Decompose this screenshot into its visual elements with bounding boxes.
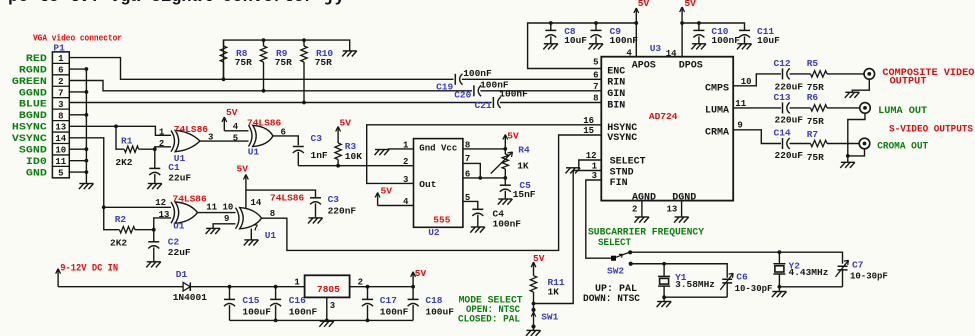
label C8	[564, 26, 576, 37]
label 74LS86 (U1B)	[247, 117, 282, 128]
label R10	[316, 48, 333, 59]
resistor R7 75R	[811, 140, 860, 146]
ground (C11)	[737, 44, 752, 50]
label U1 (gate B)	[248, 146, 260, 157]
wire SW2 upper throw to Y2/C7	[630, 250, 842, 263]
label C3 (220nF)	[328, 194, 340, 205]
svg-text:75R: 75R	[807, 116, 824, 127]
pin label 13 (AD724 DGND)	[667, 205, 678, 215]
label C6	[736, 271, 748, 282]
svg-text:7: 7	[58, 88, 63, 98]
wire SELECT pin12 to ground	[579, 160, 602, 168]
connector P1 (VGA) with pin boxes	[52, 52, 69, 179]
wire GREEN net (C20 to GIN)	[480, 90, 601, 92]
label C20 value 100nF	[480, 79, 509, 90]
pin name VSYNC (AD724)	[607, 133, 637, 144]
label VGA video connector	[33, 33, 122, 43]
wire C3 to 555 pin2	[298, 164, 413, 168]
pin name LUMA (AD724)	[705, 106, 729, 117]
ground (C8)	[543, 44, 558, 50]
label SW2	[607, 265, 624, 276]
svg-text:4: 4	[626, 48, 632, 58]
svg-text:U1: U1	[248, 146, 260, 157]
connector composite video jack	[864, 69, 875, 80]
pin label 2 (7805)	[358, 277, 363, 287]
svg-text:4.43MHz: 4.43MHz	[789, 267, 829, 278]
capacitor C1	[149, 149, 160, 183]
switch SW2	[611, 250, 633, 266]
5V arrow (DPOS)	[680, 0, 696, 23]
pin label 9 (AD724 CRMA)	[737, 121, 742, 131]
wire LUMA to C13	[733, 107, 781, 109]
svg-text:9-12V DC IN: 9-12V DC IN	[60, 264, 118, 275]
wire gate4 pin9 to ground	[213, 224, 235, 229]
label UP: PAL	[595, 284, 637, 295]
label MODE SELECT	[459, 295, 523, 306]
svg-text:75R: 75R	[315, 57, 332, 68]
svg-text:2: 2	[632, 205, 637, 215]
svg-text:3: 3	[330, 301, 335, 311]
crystal Y2 4.43MHz	[773, 252, 785, 287]
label D1	[176, 269, 188, 280]
svg-text:7: 7	[253, 224, 258, 234]
pin label 8 (555)	[465, 140, 470, 150]
svg-text:5: 5	[58, 169, 63, 179]
svg-text:SELECT: SELECT	[598, 238, 631, 249]
ground (75R rail)	[342, 51, 357, 57]
wire 5V rail to C3b and pin14	[246, 190, 316, 208]
pin label 1 (555)	[403, 140, 409, 150]
svg-text:Gnd Vcc: Gnd Vcc	[419, 143, 457, 154]
pin label 14 (AD724 DPOS)	[666, 49, 677, 59]
svg-text:1: 1	[159, 127, 165, 137]
label R8	[236, 48, 248, 59]
svg-text:R3: R3	[345, 141, 357, 152]
svg-text:100nF: 100nF	[610, 35, 639, 46]
label Gnd Vcc (555)	[419, 143, 457, 154]
wire 555 pin5 to C4	[463, 201, 478, 209]
svg-text:74LS86: 74LS86	[173, 194, 208, 205]
svg-text:12: 12	[155, 198, 166, 208]
label R3	[345, 141, 357, 152]
resistor R11 1K	[530, 276, 536, 304]
svg-text:ENC: ENC	[607, 67, 625, 78]
svg-text:C16: C16	[289, 295, 306, 306]
label CLOSED: PAL	[458, 314, 520, 325]
svg-text:C13: C13	[774, 92, 791, 103]
svg-text:U1: U1	[265, 230, 277, 241]
pin label 6 (555)	[465, 169, 470, 179]
svg-text:100uF: 100uF	[242, 306, 271, 317]
pin name STND (AD724)	[610, 167, 634, 178]
capacitor C2	[148, 230, 159, 262]
pin label 2 (AD724 AGND)	[632, 205, 637, 215]
label R6 value 75R	[807, 116, 824, 127]
wire HSYNC net	[69, 124, 171, 135]
label 74LS86 (U1C)	[173, 194, 208, 205]
svg-text:13: 13	[159, 210, 170, 220]
pin label 7 (U1D)	[253, 224, 258, 234]
svg-text:GGND: GGND	[19, 87, 47, 99]
svg-text:CLOSED: PAL: CLOSED: PAL	[458, 314, 520, 325]
wire 555 pin4 to 5V	[378, 205, 414, 207]
diode D1 1N4001	[183, 282, 190, 291]
label Out (555)	[419, 179, 436, 190]
capacitor C8	[545, 23, 556, 44]
svg-text:6: 6	[593, 70, 598, 80]
capacitor C9	[591, 23, 602, 44]
svg-text:S-VIDEO OUTPUTS: S-VIDEO OUTPUTS	[889, 124, 973, 135]
label C5 value 15nF	[513, 189, 536, 200]
pin label 3 (555)	[403, 175, 408, 185]
svg-text:1nF: 1nF	[311, 150, 328, 161]
potentiometer R4 1K	[491, 149, 513, 178]
svg-text:C12: C12	[774, 58, 791, 69]
title text (cut off at top edge)	[8, 0, 345, 7]
pin label 2 (555)	[403, 157, 408, 167]
svg-text:10-30pF: 10-30pF	[850, 272, 888, 282]
label R11	[548, 277, 565, 288]
label C13 value 220uF	[775, 114, 804, 125]
svg-text:5V: 5V	[226, 107, 238, 118]
5V arrow (R3)	[336, 118, 352, 132]
label C2	[168, 236, 180, 247]
label C21 value 100nF	[499, 89, 528, 100]
xor gate U1C 74LS86	[171, 202, 198, 223]
wire GREEN net (pin2 to C20)	[69, 81, 472, 93]
svg-text:100nF: 100nF	[711, 35, 740, 46]
label LUMA OUT	[878, 106, 927, 117]
svg-text:100uF: 100uF	[425, 306, 454, 317]
svg-text:10K: 10K	[345, 151, 362, 162]
connector P1 name	[53, 42, 70, 53]
svg-text:100nF: 100nF	[289, 306, 318, 317]
pin label 5 (555)	[465, 193, 470, 203]
capacitor C16	[270, 287, 281, 321]
wire AGND pin2 to ground	[641, 201, 643, 217]
svg-text:RED: RED	[26, 53, 47, 65]
svg-text:APOS: APOS	[632, 61, 656, 72]
svg-text:VSYNC: VSYNC	[607, 133, 637, 144]
label R9 value 75R	[275, 57, 292, 68]
wire C14 to R7	[790, 143, 811, 145]
capacitor C3 1nF	[293, 147, 304, 166]
svg-text:BIN: BIN	[607, 101, 625, 112]
svg-text:5V: 5V	[415, 268, 427, 279]
svg-text:3.58MHz: 3.58MHz	[675, 279, 715, 290]
pin label 4 (U1B)	[233, 122, 239, 132]
pin label 1 (7805)	[294, 277, 300, 287]
svg-text:C15: C15	[242, 295, 259, 306]
connector luma out jack	[860, 103, 871, 114]
svg-text:OUTPUT: OUTPUT	[890, 77, 927, 88]
capacitor C12 220uF	[783, 68, 790, 79]
label C18	[425, 295, 442, 306]
svg-text:GIN: GIN	[607, 89, 625, 100]
wire RED net (pin1 to C19)	[69, 58, 453, 82]
label R10 value 75R	[315, 57, 332, 68]
pin name APOS (AD724)	[632, 61, 656, 72]
capacitor C17	[362, 287, 373, 321]
wire composite jack shield	[852, 79, 869, 92]
pin label 1 (U1A)	[159, 127, 165, 137]
pin name HSYNC (AD724)	[607, 123, 637, 134]
svg-text:SGND: SGND	[19, 145, 47, 157]
ground (C4)	[470, 227, 485, 233]
wire gate3 out to gate4 pin10	[198, 212, 236, 214]
pin label 13 (U1C)	[159, 210, 170, 220]
ground (555 pin1)	[375, 150, 390, 156]
label R3 value 10K	[345, 151, 362, 162]
svg-text:Out: Out	[419, 179, 436, 190]
label C17	[380, 295, 397, 306]
label Y2	[789, 260, 801, 271]
svg-text:GREEN: GREEN	[12, 76, 47, 88]
resistor R3	[335, 131, 341, 166]
ground (C5)	[498, 199, 513, 205]
svg-text:BLUE: BLUE	[19, 99, 47, 111]
svg-text:14: 14	[55, 134, 66, 144]
label COMPOSITE VIDEO	[882, 68, 974, 79]
label C8 value 10uF	[564, 35, 587, 46]
svg-text:5V: 5V	[638, 0, 650, 9]
wire 7805 pin3 to ground rail	[326, 297, 328, 320]
5V arrow (R4 top)	[503, 131, 519, 149]
label R7 value 75R	[807, 152, 824, 163]
svg-text:1N4001: 1N4001	[173, 292, 208, 303]
label R1 value 2K2	[115, 157, 132, 168]
wire U1 pin7 to ground	[250, 229, 252, 240]
svg-text:CROMA OUT: CROMA OUT	[877, 141, 928, 152]
pin name FIN (AD724)	[610, 178, 628, 189]
label R5 value 75R	[807, 82, 824, 93]
pin label 5 (AD724 ENC)	[593, 57, 598, 67]
svg-text:DPOS: DPOS	[679, 61, 703, 72]
svg-text:5: 5	[233, 133, 238, 143]
ground (C10)	[691, 44, 706, 50]
svg-text:LUMA: LUMA	[705, 106, 729, 117]
wire C13 to R6	[790, 107, 811, 109]
svg-text:4: 4	[233, 122, 239, 132]
ground (SELECT)	[566, 168, 581, 174]
svg-text:C3: C3	[328, 194, 340, 205]
resistor R5 75R	[811, 71, 865, 77]
pin name GIN (AD724)	[607, 89, 625, 100]
svg-text:220uF: 220uF	[775, 81, 804, 92]
label R4 value 1K	[517, 161, 529, 172]
svg-text:RIN: RIN	[607, 78, 625, 89]
ground (AGND)	[634, 217, 649, 223]
label AD724	[649, 111, 678, 122]
svg-text:U1: U1	[173, 221, 185, 232]
label SW1	[541, 311, 558, 322]
svg-text:BGND: BGND	[19, 110, 47, 122]
svg-text:VSYNC: VSYNC	[12, 133, 48, 145]
label C5	[519, 180, 531, 191]
capacitor C21	[493, 97, 500, 108]
svg-text:220uF: 220uF	[775, 150, 804, 161]
svg-text:2: 2	[159, 139, 164, 149]
label R6	[807, 92, 819, 103]
svg-text:C14: C14	[774, 128, 791, 139]
pin label 16 (AD724 HSYNC)	[583, 116, 594, 126]
label R4	[518, 145, 530, 156]
svg-text:DGND: DGND	[672, 192, 696, 203]
svg-text:RGND: RGND	[19, 64, 47, 76]
ground (C3 220nF)	[308, 218, 323, 224]
resistor R10	[301, 40, 307, 102]
label C11 value 10uF	[757, 35, 780, 46]
svg-text:C19: C19	[436, 82, 453, 93]
label C15	[242, 295, 259, 306]
IC 555 box U2	[414, 139, 463, 228]
wire VSYNC to gate3 pin12	[104, 206, 171, 208]
label S-VIDEO OUTPUTS	[889, 124, 973, 135]
label C18 value 100uF	[425, 306, 454, 317]
svg-text:5V: 5V	[533, 253, 545, 264]
ground (Y1 tank)	[657, 302, 672, 308]
capacitor C3 220nF decoupling	[310, 198, 321, 218]
label C2 value 22uF	[168, 247, 191, 258]
label C11	[757, 26, 774, 37]
svg-text:7805: 7805	[317, 284, 340, 295]
label 74LS86 (U1D)	[270, 193, 305, 204]
ground (DGND)	[674, 217, 689, 223]
wire Y2/C7 bottom rail	[778, 285, 843, 292]
xor gate U1D 74LS86	[236, 208, 262, 229]
pin label 7 (555)	[465, 154, 470, 164]
svg-text:75R: 75R	[275, 57, 292, 68]
trimmer capacitor C7 10-30pF	[836, 260, 849, 287]
svg-text:R7: R7	[807, 129, 819, 140]
svg-text:1K: 1K	[517, 161, 529, 172]
resistor R6 75R	[811, 105, 860, 111]
svg-text:U2: U2	[428, 227, 440, 238]
xor gate U1A 74LS86	[171, 130, 200, 151]
wire VSYNC net	[69, 138, 119, 230]
ground (C1)	[147, 184, 162, 190]
pin label 2 (U1A)	[159, 139, 164, 149]
svg-text:2: 2	[403, 157, 408, 167]
crystal Y1 3.58MHz	[658, 264, 670, 297]
ground (power rail)	[319, 321, 334, 327]
wire Y1/C6 bottom rail	[662, 295, 727, 301]
ground (s-video shield)	[840, 162, 855, 168]
pin name DGND (AD724)	[672, 192, 696, 203]
pin label 4 (AD724 APOS)	[626, 48, 632, 58]
trimmer capacitor C6 10-30pF	[720, 273, 733, 297]
label C14	[774, 128, 791, 139]
wire STND pin1 to R11/SW1	[534, 171, 602, 304]
svg-text:5V: 5V	[340, 118, 352, 129]
svg-text:U3: U3	[650, 43, 662, 54]
svg-text:220uF: 220uF	[775, 114, 804, 125]
wire SW2 lower throw to Y1/C6	[631, 262, 728, 278]
label R2 value 2K2	[110, 238, 127, 249]
ground (C9)	[589, 44, 604, 50]
label U3	[650, 43, 662, 54]
5V arrow (APOS)	[634, 0, 650, 23]
svg-text:AGND: AGND	[632, 192, 656, 203]
wire BLUE net (C21 to BIN)	[500, 102, 601, 104]
label Y1	[675, 272, 687, 283]
wire gate2 out to C3	[273, 136, 298, 145]
svg-text:3: 3	[58, 100, 63, 110]
svg-text:C21: C21	[475, 100, 492, 111]
svg-text:DOWN: NTSC: DOWN: NTSC	[583, 294, 640, 305]
pin label 10 (AD724 CMPS)	[741, 77, 752, 87]
label R1	[121, 135, 133, 146]
label R5	[807, 58, 819, 69]
5V arrow (U1 Vcc pin14)	[237, 164, 249, 191]
wire RED net (C19 to RIN)	[462, 78, 602, 80]
capacitor C11	[739, 30, 750, 43]
resistor R1	[124, 146, 155, 152]
svg-text:22uF: 22uF	[168, 247, 191, 258]
pin label 15 (AD724 VSYNC)	[583, 126, 594, 136]
wire luma/croma shield to ground	[846, 113, 865, 162]
capacitor C4	[472, 209, 483, 227]
svg-text:CRMA: CRMA	[705, 127, 729, 138]
pin label 3 (7805)	[330, 301, 335, 311]
pin label 10 (U1D)	[223, 203, 234, 213]
label C20	[454, 90, 471, 101]
pin label 8 (AD724 BIN)	[593, 93, 598, 103]
ground (SW1)	[526, 330, 541, 336]
wire gate1 out to gate2 pin5	[200, 140, 249, 142]
label C12	[774, 58, 791, 69]
svg-text:5V: 5V	[684, 0, 696, 9]
svg-text:SUBCARRIER FREQUENCY: SUBCARRIER FREQUENCY	[588, 227, 704, 238]
svg-text:74LS86: 74LS86	[174, 124, 209, 135]
connector croma out jack	[859, 138, 870, 149]
pin name ENC (AD724)	[607, 67, 625, 78]
label C6 value 10-30pF	[735, 284, 773, 294]
svg-text:10uF: 10uF	[757, 35, 780, 46]
5V arrow (555 pin4)	[375, 186, 392, 206]
wire gate4 out to VSYNC15	[262, 135, 602, 250]
capacitor C20	[474, 85, 481, 96]
svg-text:SW2: SW2	[607, 265, 624, 276]
svg-text:14: 14	[666, 49, 677, 59]
svg-text:AD724: AD724	[649, 111, 678, 122]
svg-text:100nF: 100nF	[380, 306, 409, 317]
regulator 7805	[305, 275, 350, 297]
label C4 value 100nF	[493, 219, 522, 230]
label C10 value 100nF	[711, 35, 740, 46]
svg-text:5: 5	[593, 57, 598, 67]
wire R2 to gate3 pin13	[152, 218, 171, 232]
svg-text:5V: 5V	[237, 164, 249, 175]
label SUBCARRIER FREQUENCY	[588, 227, 704, 238]
label C3 value 1nF	[311, 150, 328, 161]
wire D1 to 7805 in	[190, 285, 304, 289]
pin label 6 (AD724 RIN)	[593, 70, 598, 80]
wire DPOS pin14 and rail	[680, 21, 744, 57]
svg-text:C18: C18	[425, 295, 442, 306]
label C14 value 220uF	[775, 150, 804, 161]
capacitor C10	[693, 23, 704, 44]
pin label 12 (AD724 SELECT)	[586, 151, 597, 161]
pin label 11 (U1C)	[206, 203, 217, 213]
ground (U1 pin7)	[244, 240, 259, 246]
wire 555 pin7 to pin6	[463, 163, 507, 179]
svg-text:8: 8	[593, 93, 598, 103]
svg-text:14: 14	[251, 198, 262, 208]
svg-text:9: 9	[224, 214, 229, 224]
switch SW1	[531, 302, 535, 331]
ground (C2)	[146, 262, 161, 268]
